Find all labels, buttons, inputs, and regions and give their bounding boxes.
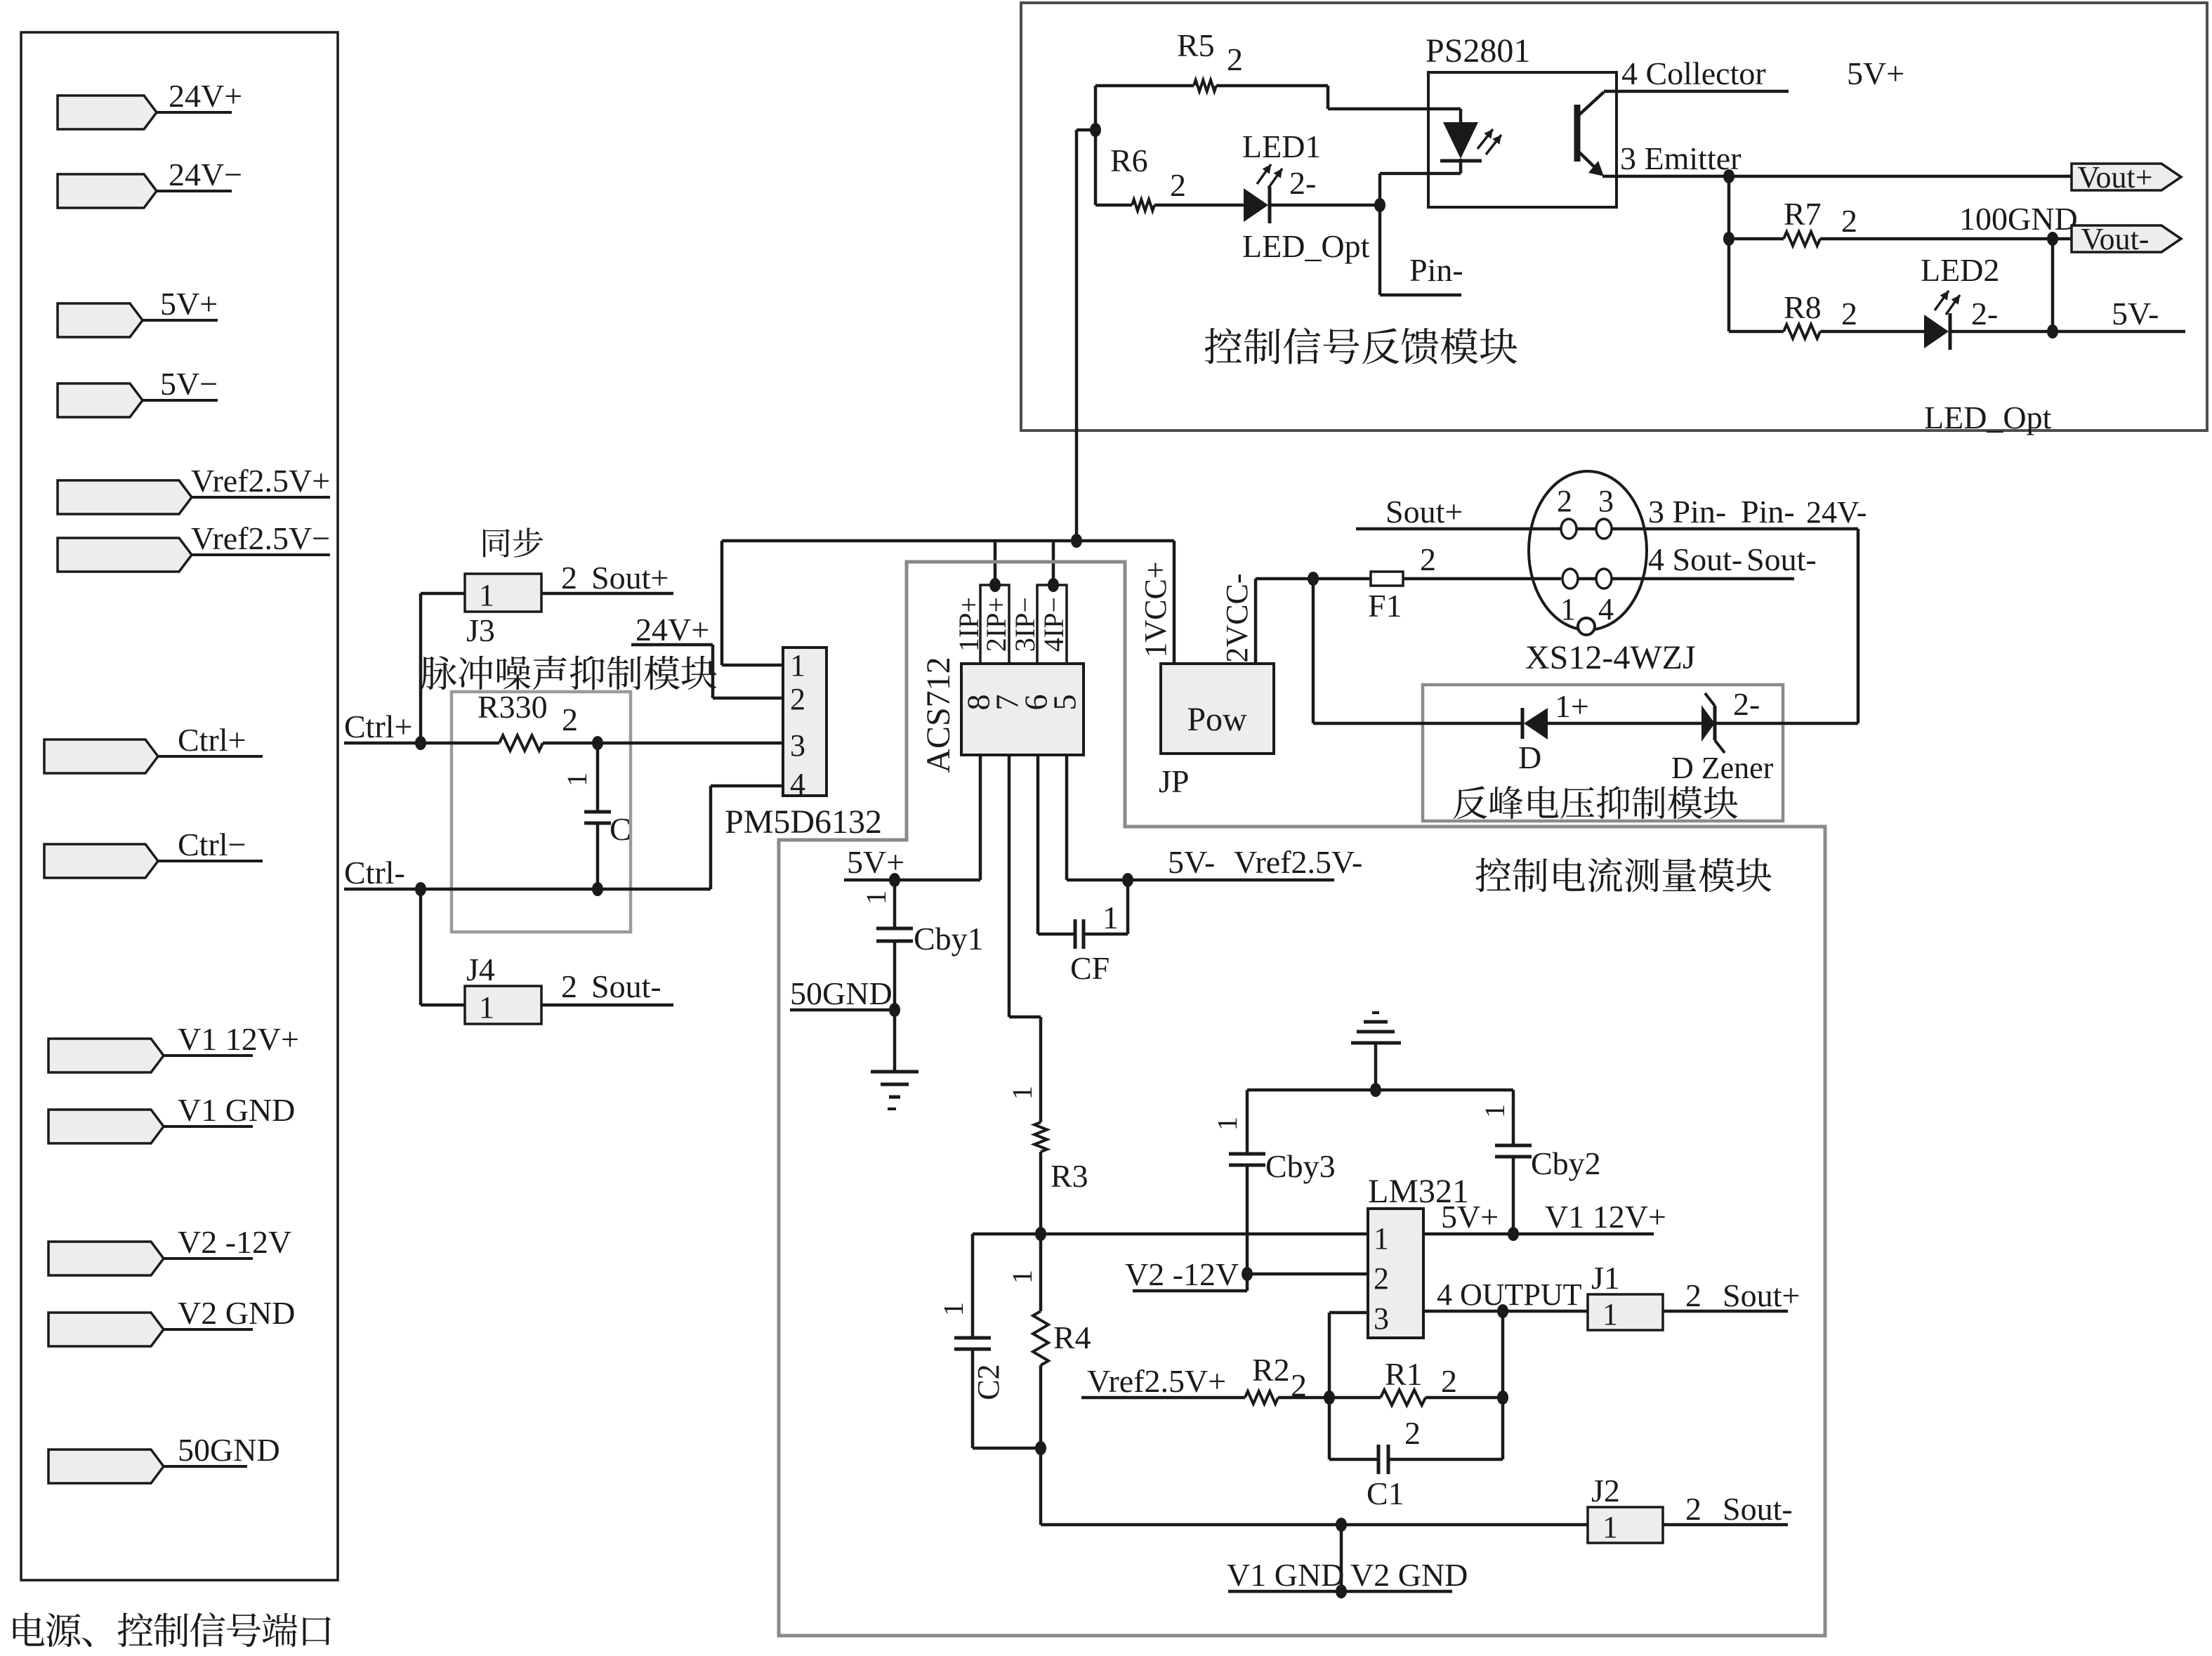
svg-text:R8: R8 <box>1784 289 1822 325</box>
svg-text:1: 1 <box>790 648 805 683</box>
XS12 hole 3 <box>1596 519 1612 539</box>
svg-text:R5: R5 <box>1177 27 1215 63</box>
svg-text:1: 1 <box>1602 1297 1618 1332</box>
capacitor Cby3 <box>1246 1090 1249 1154</box>
svg-text:PM5D6132: PM5D6132 <box>725 803 882 841</box>
svg-text:4: 4 <box>790 767 805 801</box>
svg-text:2: 2 <box>561 560 577 596</box>
LED LED1 <box>1244 188 1268 222</box>
svg-text:R7: R7 <box>1784 196 1822 232</box>
feedback module title <box>1205 327 1518 364</box>
svg-text:2: 2 <box>790 682 805 716</box>
node Cby3/pin2 junction <box>1242 1267 1253 1281</box>
wire junction to fuse <box>1314 577 1371 581</box>
node Cby1 junction <box>889 873 900 887</box>
connector J4 box <box>465 986 541 1024</box>
svg-text:5: 5 <box>1047 695 1083 711</box>
node pin-pair B junction <box>1048 578 1059 592</box>
IC ACS712 body <box>961 664 1084 755</box>
wire main top rail <box>722 539 1174 543</box>
capacitor CF <box>1074 919 1077 949</box>
svg-text:C1: C1 <box>1367 1476 1404 1511</box>
wire 5V+ V1 12V+ row <box>1423 1233 1654 1236</box>
svg-text:4 OUTPUT: 4 OUTPUT <box>1437 1277 1582 1312</box>
node Vout- junction <box>2047 232 2058 246</box>
wire 24V+ to pin2 <box>631 643 713 647</box>
wire Cby3-Cby2 rail <box>1247 1089 1513 1092</box>
svg-text:Vref2.5V+: Vref2.5V+ <box>191 463 330 499</box>
wire pin5 to 5V- <box>1065 755 1069 880</box>
svg-text:CF: CF <box>1070 950 1110 986</box>
ground symbol (top) <box>1372 1011 1379 1014</box>
svg-text:1+: 1+ <box>1555 688 1589 724</box>
node R1/C1 junction <box>1497 1391 1508 1405</box>
svg-text:5V+: 5V+ <box>1441 1199 1499 1235</box>
port 24V+ <box>58 96 157 129</box>
node Ctrl-/C junction <box>592 882 603 896</box>
svg-text:2: 2 <box>562 702 578 737</box>
wire D to zener <box>1548 722 1701 725</box>
wire emitter to Vout+ <box>1729 175 2072 178</box>
connector PM5D6132 box <box>783 648 827 796</box>
reverse peak module title <box>1454 786 1738 819</box>
wire 24V- vertical <box>1857 529 1860 723</box>
LED2 emission arrows <box>1935 291 1949 310</box>
wire pin2 row <box>1247 1273 1368 1276</box>
svg-text:2-: 2- <box>1289 165 1316 201</box>
port V2 -12V <box>48 1242 164 1275</box>
svg-text:24V+: 24V+ <box>636 612 709 648</box>
wire output to R1 junction <box>1501 1311 1505 1398</box>
svg-text:J1: J1 <box>1591 1260 1620 1296</box>
connector J3 box <box>465 574 541 612</box>
svg-text:C2: C2 <box>971 1364 1006 1400</box>
PS2801 phototransistor <box>1574 105 1581 162</box>
port flag Vout- <box>2072 225 2181 252</box>
svg-text:2: 2 <box>1374 1261 1389 1296</box>
wire R6 row <box>1095 204 1132 207</box>
port 50GND <box>48 1450 164 1483</box>
node fuse row junction <box>1308 572 1319 586</box>
svg-text:2: 2 <box>1170 167 1186 203</box>
wire 1VCC+ down <box>1173 541 1176 664</box>
XS12 hole 2 <box>1561 519 1576 539</box>
svg-text:1: 1 <box>479 990 494 1025</box>
node emitter junction <box>1723 169 1734 183</box>
port Vref2.5V- <box>58 538 192 572</box>
svg-text:LED_Opt: LED_Opt <box>1924 400 2052 435</box>
wire J2 output <box>1663 1523 1788 1527</box>
wire R8 row <box>1729 330 1784 334</box>
svg-text:5V-: 5V- <box>1168 844 1215 880</box>
svg-text:2: 2 <box>1441 1363 1457 1399</box>
ACS712 top pin box 3IP-/4IP- <box>1037 585 1067 664</box>
wire pin1 row <box>973 1233 1368 1236</box>
ACS712 top pin box 1IP+/2IP+ <box>980 585 1009 664</box>
wire bottom rail <box>1039 1448 1043 1525</box>
capacitor Cby1 <box>893 880 897 928</box>
node pin-pair A junction <box>989 578 1001 592</box>
panel title 电源、控制信号端口 <box>13 1612 331 1647</box>
wire pin3 <box>1329 1311 1368 1315</box>
wire J4 left <box>419 889 423 1005</box>
svg-text:1: 1 <box>937 1302 969 1316</box>
svg-text:Sout-: Sout- <box>1723 1491 1793 1527</box>
port V1 12V+ <box>48 1039 164 1072</box>
wire J3 output <box>541 592 673 596</box>
svg-text:5V-: 5V- <box>2112 296 2159 331</box>
svg-text:1: 1 <box>1602 1510 1618 1544</box>
svg-text:R2: R2 <box>1252 1352 1290 1388</box>
port 5V+ <box>58 303 143 337</box>
wire Ctrl- row <box>344 888 711 891</box>
svg-text:50GND: 50GND <box>790 975 893 1011</box>
svg-text:5V+: 5V+ <box>1847 55 1904 91</box>
svg-text:V2 -12V: V2 -12V <box>178 1224 291 1260</box>
svg-text:2IP+: 2IP+ <box>980 597 1012 652</box>
svg-text:24V+: 24V+ <box>169 78 242 114</box>
svg-text:1: 1 <box>561 773 593 787</box>
XS12 hole 4 <box>1596 569 1612 589</box>
wire J4 output <box>541 1004 673 1007</box>
svg-text:Vref2.5V-: Vref2.5V- <box>1234 844 1362 880</box>
svg-text:LED1: LED1 <box>1242 129 1321 164</box>
port V2 GND <box>48 1313 164 1346</box>
svg-text:2: 2 <box>1685 1277 1701 1313</box>
port Ctrl+ <box>44 740 158 773</box>
wire collector <box>1604 90 1789 93</box>
svg-text:J2: J2 <box>1591 1473 1620 1509</box>
XS12 index notch <box>1578 618 1595 635</box>
svg-text:1: 1 <box>1006 1086 1038 1100</box>
svg-text:3: 3 <box>1374 1301 1389 1336</box>
wire fuse to XS12 pin1 <box>1403 577 1561 581</box>
svg-text:Vout+: Vout+ <box>2077 160 2152 195</box>
capacitor C1 <box>1329 1458 1378 1461</box>
svg-text:Sout-: Sout- <box>1746 541 1817 577</box>
wire output row <box>1423 1310 1588 1313</box>
port Vref2.5V+ <box>58 480 192 514</box>
connector J1 box <box>1588 1294 1663 1330</box>
svg-text:1: 1 <box>1006 1270 1038 1284</box>
measurement module title <box>1475 857 1771 892</box>
svg-text:100GND: 100GND <box>1959 201 2078 237</box>
wire V1GND stub <box>1340 1525 1343 1591</box>
svg-text:LED2: LED2 <box>1921 252 1999 288</box>
resistor R3 <box>1034 1122 1047 1152</box>
wire pin8 to 5V+ <box>979 755 982 880</box>
svg-text:2: 2 <box>561 968 577 1004</box>
svg-text:2VCC-: 2VCC- <box>1220 573 1254 662</box>
wire to ground <box>893 1010 897 1072</box>
op-amp U LM321 box <box>1368 1209 1423 1338</box>
node R3/pin1 junction <box>1035 1227 1046 1241</box>
wire J1 output <box>1663 1310 1788 1313</box>
svg-text:1VCC+: 1VCC+ <box>1138 561 1173 657</box>
svg-text:Ctrl+: Ctrl+ <box>344 709 413 744</box>
svg-text:24V−: 24V− <box>169 157 242 192</box>
pulse noise module title <box>421 656 717 690</box>
svg-text:J4: J4 <box>466 952 495 987</box>
node Ctrl-/J4 junction <box>415 882 426 896</box>
svg-text:Sout+: Sout+ <box>591 560 669 596</box>
wire emitter <box>1602 175 1729 178</box>
resistor R1 <box>1381 1390 1426 1405</box>
svg-text:R6: R6 <box>1110 143 1148 178</box>
svg-text:2: 2 <box>1291 1367 1307 1403</box>
wire emitter junction down <box>1727 176 1731 331</box>
power module Pow box <box>1161 664 1274 754</box>
svg-text:Cby1: Cby1 <box>914 921 984 957</box>
wire Sout+ to XS12 pin2 <box>1356 527 1560 531</box>
svg-text:Vref2.5V−: Vref2.5V− <box>191 520 330 556</box>
wire XS12 pin4 Sout- <box>1612 577 1794 581</box>
wire R1 row <box>1329 1396 1381 1400</box>
svg-text:LED_Opt: LED_Opt <box>1242 228 1370 264</box>
svg-text:Sout-: Sout- <box>591 968 661 1004</box>
zener diode D Zener <box>1701 705 1715 742</box>
svg-text:1: 1 <box>479 578 494 612</box>
connector XS12-4WZJ ellipse <box>1529 471 1647 630</box>
resistor R6 <box>1132 199 1154 211</box>
wire XS12 pin3 to 24V- <box>1612 527 1858 531</box>
port Ctrl- <box>44 844 158 878</box>
svg-text:Vout-: Vout- <box>2081 222 2150 256</box>
node output junction <box>1497 1304 1508 1318</box>
svg-text:2: 2 <box>1420 541 1436 577</box>
svg-text:3IP−: 3IP− <box>1009 597 1041 652</box>
svg-text:Sout+: Sout+ <box>1723 1277 1800 1313</box>
wire R2 row <box>1081 1396 1245 1400</box>
svg-text:2: 2 <box>1685 1491 1701 1527</box>
svg-text:1: 1 <box>1479 1104 1510 1118</box>
node R330/C junction <box>592 736 603 750</box>
svg-text:Ctrl-: Ctrl- <box>344 855 405 891</box>
node R2/pin3 junction <box>1324 1391 1335 1405</box>
wire Vout- junction down <box>2051 239 2055 331</box>
svg-text:XS12-4WZJ: XS12-4WZJ <box>1525 639 1696 676</box>
reverse peak module box 反峰电压抑制模块 <box>1423 685 1783 821</box>
label 同步 <box>483 527 543 557</box>
svg-text:5V+: 5V+ <box>160 286 218 322</box>
diode D <box>1521 708 1525 739</box>
svg-text:JP: JP <box>1159 763 1189 799</box>
port V1 GND <box>48 1110 164 1143</box>
wire 2VCC- up <box>1254 579 1258 664</box>
capacitor Cby2 <box>1512 1090 1515 1145</box>
measurement module box 控制电流测量模块 <box>779 562 1825 1636</box>
wire Ctrl+ row <box>344 742 499 745</box>
power/control signal port panel box <box>21 32 338 1580</box>
wire pin6 to CF <box>1036 755 1040 934</box>
capacitor C2 <box>971 1234 975 1338</box>
wire R5 row <box>1095 84 1194 88</box>
svg-text:2: 2 <box>1404 1415 1421 1451</box>
PS2801 internal LED <box>1443 122 1478 159</box>
svg-text:1: 1 <box>1374 1221 1389 1256</box>
wire pin7 down <box>1008 755 1011 1017</box>
svg-text:V1 12V+: V1 12V+ <box>1545 1199 1666 1235</box>
svg-text:V2 GND: V2 GND <box>1350 1557 1468 1593</box>
svg-text:J3: J3 <box>466 612 495 648</box>
wire D row left <box>1313 722 1522 725</box>
svg-text:Ctrl−: Ctrl− <box>178 827 246 862</box>
svg-text:V2 GND: V2 GND <box>178 1295 295 1331</box>
ground symbol (50GND) <box>871 1070 919 1074</box>
svg-text:2: 2 <box>1557 484 1572 518</box>
svg-text:Cby2: Cby2 <box>1531 1145 1601 1181</box>
svg-text:3: 3 <box>790 728 805 763</box>
svg-text:R330: R330 <box>478 689 548 725</box>
wire R5 step to opto LED <box>1326 86 1330 109</box>
wire LED2 to 5V- <box>1950 330 2185 334</box>
svg-text:V1 GND: V1 GND <box>1227 1557 1344 1593</box>
node ground/rail junction <box>1370 1083 1381 1097</box>
svg-text:F1: F1 <box>1368 588 1402 624</box>
node LED1/PS2801 junction <box>1374 198 1385 212</box>
resistor R7 <box>1784 232 1820 246</box>
svg-text:1: 1 <box>1211 1117 1243 1131</box>
svg-text:V2 -12V: V2 -12V <box>1125 1256 1239 1292</box>
svg-text:Ctrl+: Ctrl+ <box>178 722 246 758</box>
svg-text:Sout+: Sout+ <box>1385 494 1463 530</box>
LED1 emission arrows <box>1257 164 1271 184</box>
svg-text:1: 1 <box>860 891 892 905</box>
svg-text:V1 GND: V1 GND <box>178 1092 295 1128</box>
fuse F1 <box>1371 572 1403 586</box>
port 5V- <box>58 383 143 417</box>
node R5/R6 feed junction <box>1090 123 1101 137</box>
svg-text:3: 3 <box>1598 484 1614 518</box>
feedback module box 控制信号反馈模块 <box>1021 3 2207 431</box>
node R7 junction <box>1723 232 1734 246</box>
svg-text:24V-: 24V- <box>1806 495 1867 530</box>
resistor R5 <box>1194 80 1216 91</box>
node CF junction <box>1122 873 1133 887</box>
svg-text:R3: R3 <box>1051 1158 1088 1194</box>
svg-text:4: 4 <box>1598 592 1614 626</box>
node Ctrl+/J3 junction <box>415 736 426 750</box>
node rail/feedback junction <box>1071 534 1082 548</box>
pulse noise module box 脉冲噪声抑制模块 <box>452 692 631 932</box>
wire feed from below <box>1077 129 1095 132</box>
svg-text:3 Emitter: 3 Emitter <box>1620 140 1741 176</box>
svg-text:D Zener: D Zener <box>1671 751 1774 785</box>
connector J2 box <box>1588 1507 1663 1543</box>
wire R5-R6 left vertical <box>1094 86 1098 205</box>
wire rail down to PM pin1 <box>720 541 724 665</box>
wire pin-pair B up <box>1052 541 1055 585</box>
svg-text:R4: R4 <box>1053 1320 1091 1355</box>
wire junction down to Pin- stub <box>1378 205 1382 295</box>
svg-text:4IP−: 4IP− <box>1038 597 1069 652</box>
svg-text:5V−: 5V− <box>160 366 218 402</box>
svg-text:2: 2 <box>1841 203 1857 239</box>
svg-text:4 Collector: 4 Collector <box>1621 55 1766 91</box>
svg-text:1: 1 <box>1102 900 1119 935</box>
svg-text:2: 2 <box>1841 296 1857 331</box>
wire LED1 to junction <box>1270 204 1380 207</box>
node LED2/Vout- junction <box>2047 324 2058 339</box>
wire junction up to opto LED cathode <box>1378 173 1382 205</box>
svg-text:C: C <box>610 811 631 847</box>
svg-text:Pin-: Pin- <box>1409 252 1463 288</box>
resistor R2 <box>1245 1391 1278 1404</box>
svg-text:R1: R1 <box>1385 1356 1423 1392</box>
wire between holes 1-4 <box>1578 577 1595 581</box>
wire pin-pair A up <box>994 541 997 585</box>
port flag Vout+ <box>2072 164 2181 190</box>
capacitor C <box>596 743 600 812</box>
resistor R8 <box>1784 324 1820 339</box>
svg-text:2-: 2- <box>1971 296 1998 331</box>
PS2801 LED emission arrows <box>1477 129 1493 149</box>
node bottom rail junction <box>1336 1518 1347 1532</box>
wire J3 left <box>421 592 465 596</box>
resistor R330 <box>499 735 543 751</box>
svg-text:4 Sout-: 4 Sout- <box>1648 541 1742 577</box>
node V1GND junction <box>1336 1584 1347 1598</box>
optocoupler U PS2801 box <box>1428 72 1617 207</box>
wire zener to 24V- <box>1715 722 1858 725</box>
node 50GND junction <box>889 1003 900 1017</box>
node Cby2/5V+ junction <box>1508 1227 1519 1241</box>
svg-text:ACS712: ACS712 <box>920 657 957 773</box>
resistor R4 <box>1039 1234 1043 1311</box>
svg-text:D: D <box>1518 740 1541 775</box>
svg-text:Cby3: Cby3 <box>1265 1148 1336 1184</box>
wire R7 row <box>1729 237 1784 241</box>
svg-text:PS2801: PS2801 <box>1426 32 1530 70</box>
svg-text:1: 1 <box>1560 592 1576 626</box>
svg-text:Vref2.5V+: Vref2.5V+ <box>1087 1363 1226 1399</box>
XS12 hole 1 <box>1562 569 1578 589</box>
wire junction down to D row <box>1312 579 1315 723</box>
svg-text:3 Pin-: 3 Pin- <box>1648 494 1726 530</box>
svg-text:Pin-: Pin- <box>1741 494 1795 530</box>
wire between holes 2-3 <box>1577 527 1595 531</box>
svg-text:2: 2 <box>1227 41 1243 77</box>
svg-text:2-: 2- <box>1733 686 1760 722</box>
svg-text:V1 12V+: V1 12V+ <box>178 1021 299 1057</box>
node R4/C2 junction <box>1035 1441 1046 1455</box>
LED LED2 <box>1924 315 1949 348</box>
port 24V- <box>58 174 157 208</box>
svg-text:50GND: 50GND <box>178 1432 280 1468</box>
svg-text:Pow: Pow <box>1187 701 1247 738</box>
